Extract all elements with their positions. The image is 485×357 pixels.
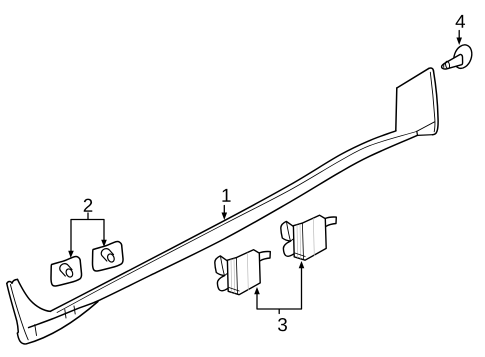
- retainer 3a (left): [215, 250, 270, 295]
- screw 4 head: [451, 42, 475, 71]
- retainer 3a left wing: [215, 256, 228, 291]
- screw 4 shaft with rounded end and tip cone: [442, 54, 463, 69]
- label 4 arrow: [458, 31, 460, 39]
- retainer 3a ridges: [231, 253, 248, 293]
- clip 2b plate (right small clip): [93, 242, 124, 271]
- rocker molding part 1: flange tick pair: [65, 306, 75, 318]
- rocker molding part 1: flange tick at x34: [35, 325, 37, 336]
- rocker molding part 1: right blade top edge: [397, 68, 429, 88]
- clip 2a peg body (back of cylinder): [60, 264, 72, 276]
- rocker molding part 1: fin sweep to top edge: [18, 279, 51, 311]
- clip 2a plate (left small clip): [51, 257, 82, 286]
- retainer 3a spine: [236, 258, 237, 295]
- label 3: [278, 318, 287, 331]
- retainer 3a body: [227, 250, 260, 295]
- clip 2a peg face: [65, 268, 74, 278]
- rocker molding part 1: blade inner rim line: [430, 72, 435, 132]
- bracket 2: [71, 213, 104, 252]
- screw 4 collar ring: [445, 61, 450, 69]
- rocker molding part 1: fin foot curl: [17, 333, 26, 344]
- rocker molding part 1: bottom flange edge: [27, 302, 99, 344]
- screw 4 tip crease: [443, 64, 446, 68]
- rocker molding part 1: step line (lower dark line): [29, 135, 418, 327]
- rocker molding part 1: right blade top curl: [429, 68, 434, 71]
- rocker molding part 1: fin outer edge: [7, 284, 18, 334]
- clip 2b peg face: [106, 253, 115, 263]
- bracket 3: [257, 263, 302, 314]
- label 1: [222, 189, 230, 202]
- label 4: [456, 15, 465, 28]
- retainer 3a right tab: [259, 252, 270, 261]
- rocker molding part 1: right blade left edge: [396, 88, 397, 130]
- rocker molding part 1: top edge: [51, 131, 397, 311]
- rocker molding part 1: thin inner line below top edge: [57, 131, 417, 312]
- bracket 3 arrowheads: [254, 261, 304, 294]
- rocker molding part 1: fin tip: [7, 279, 18, 283]
- retainer 3a wing fold lines: [220, 256, 228, 276]
- rocker molding part 1: blade foot bottom edge: [417, 131, 433, 135]
- label 2: [84, 199, 93, 212]
- rocker molding part 1: right blade right edge: [433, 71, 439, 135]
- retainer 3b (right): [281, 215, 337, 260]
- rocker molding part 1: blade fold line: [417, 122, 435, 132]
- clip 2b peg body (back of cylinder): [101, 249, 113, 261]
- label 1 arrow: [223, 206, 225, 214]
- rocker molding part 1: fin inner line: [10, 285, 28, 340]
- retainer 3a foot line: [229, 288, 239, 292]
- bracket 2 arrowheads: [68, 240, 107, 258]
